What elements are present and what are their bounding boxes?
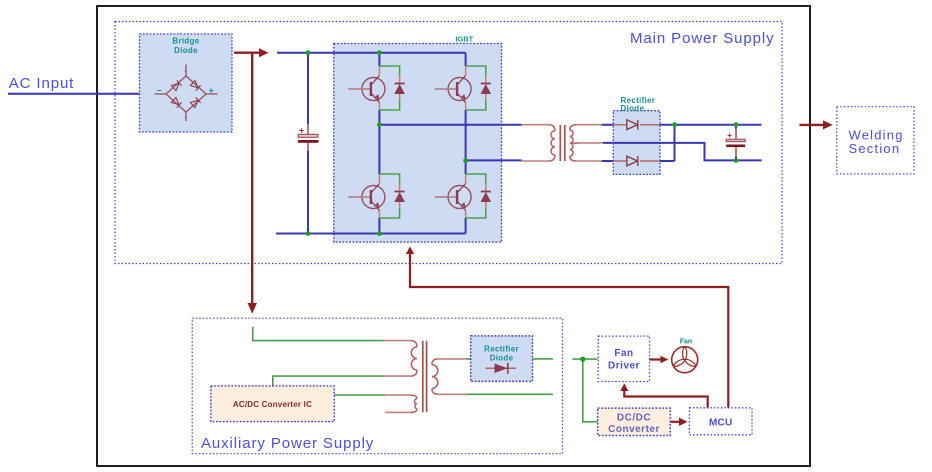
transformer T1 — [522, 125, 603, 161]
svg-text:Fan: Fan — [614, 348, 633, 359]
transistor Q1 with diode D1 — [348, 66, 405, 110]
svg-text:DC/DC: DC/DC — [617, 413, 651, 424]
junction — [377, 122, 382, 127]
junction — [306, 50, 311, 55]
wire green from IC top to T2 — [273, 376, 383, 386]
junction — [463, 158, 468, 163]
wire IGBT left rail upper — [378, 53, 380, 125]
diode D7 — [486, 363, 517, 374]
svg-text:~: ~ — [184, 116, 187, 122]
block IGBT — [334, 44, 502, 243]
svg-text:Driver: Driver — [608, 361, 640, 372]
wire into aux rectifier — [466, 358, 471, 360]
bridge diode bottom-right — [190, 97, 200, 107]
wires into rectifier — [602, 125, 614, 161]
diode D6 — [613, 156, 660, 166]
wire AC input — [8, 93, 140, 95]
wire green to fan driver — [573, 358, 598, 360]
wire IGBT right rail lower — [465, 160, 467, 233]
wire red vertical to aux supply — [251, 53, 253, 304]
wire green from IC right to T2 — [334, 394, 385, 396]
svg-text:Bridge: Bridge — [172, 37, 199, 46]
svg-text:AC/DC Converter IC: AC/DC Converter IC — [233, 400, 312, 409]
block AC/DC Converter IC — [211, 386, 334, 422]
wire IGBT left rail lower — [378, 125, 380, 234]
svg-text:Rectifier: Rectifier — [484, 345, 519, 354]
wire MCU feedback to IGBT — [410, 253, 728, 408]
svg-text:+: + — [209, 86, 214, 96]
svg-text:IGBT: IGBT — [455, 35, 473, 44]
junction — [306, 231, 311, 236]
arrow DC/DC to MCU — [670, 421, 680, 423]
wire center tap to output — [660, 143, 762, 161]
bridge diode top-right — [190, 80, 200, 90]
wire rectifier outputs joined — [660, 125, 762, 161]
wire aux rectifier output — [533, 358, 553, 360]
svg-text:−: − — [157, 86, 162, 96]
junction — [377, 231, 382, 236]
transistor Q3 with diode D3 — [348, 174, 405, 218]
svg-text:Diode: Diode — [174, 46, 198, 55]
wire center tap through block — [613, 142, 660, 144]
junction — [580, 357, 585, 362]
block MCU — [689, 408, 752, 435]
svg-text:Fan: Fan — [680, 339, 692, 346]
wire green down to DC/DC — [583, 359, 598, 422]
transistor Q4 with diode D4 — [435, 174, 492, 218]
wire phase output upper — [379, 124, 521, 126]
fan M1 — [672, 339, 698, 373]
wire aux secondary lower — [466, 393, 553, 395]
block DC/DC Converter — [598, 408, 671, 435]
junction — [734, 122, 739, 127]
arrow to welding section — [800, 124, 825, 126]
block Rectifier Diode (aux) — [471, 336, 533, 382]
transformer T2 — [383, 341, 466, 413]
capacitor C2 — [726, 125, 745, 161]
wire DC bus top — [277, 52, 466, 54]
diode D5 — [613, 120, 660, 130]
transistor Q2 with diode D2 — [435, 66, 492, 110]
wire DC bus bottom — [276, 233, 466, 235]
svg-text:~: ~ — [184, 69, 187, 75]
svg-text:Main Power Supply: Main Power Supply — [630, 30, 775, 47]
block Auxiliary Power Supply — [192, 318, 562, 454]
arrow fan driver to fan — [650, 358, 662, 360]
wire IGBT right rail upper — [465, 53, 467, 161]
svg-text:AC Input: AC Input — [9, 75, 75, 92]
svg-text:Auxiliary Power Supply: Auxiliary Power Supply — [201, 435, 374, 452]
bridge diode bottom-left — [171, 97, 181, 107]
bridge rectifier BR1 — [140, 34, 233, 132]
block Main Power Supply — [115, 22, 782, 264]
arrow bridge output — [234, 52, 260, 54]
svg-text:MCU: MCU — [709, 418, 732, 429]
wire phase output lower — [466, 159, 522, 161]
junction — [377, 50, 382, 55]
wire green input to T2 — [253, 327, 383, 341]
junction — [734, 158, 739, 163]
block Rectifier Diode (main) — [613, 96, 660, 174]
capacitor C1 — [298, 53, 319, 234]
arrow MCU to fan driver — [624, 390, 707, 408]
svg-text:Section: Section — [849, 141, 901, 156]
block Welding Section — [837, 107, 914, 174]
bridge diode top-left — [171, 80, 181, 90]
junction — [672, 122, 677, 127]
svg-text:Converter: Converter — [608, 424, 660, 435]
svg-text:Diode: Diode — [621, 104, 645, 113]
svg-text:Diode: Diode — [490, 354, 514, 363]
block Fan Driver — [598, 336, 649, 381]
